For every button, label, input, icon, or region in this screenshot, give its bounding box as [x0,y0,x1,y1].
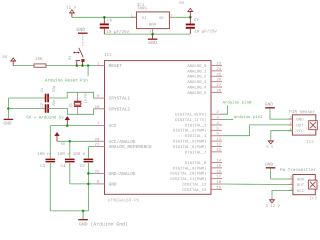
IC3 pin 3 stub (GND) [288,178,293,180]
resistor R1 10K [34,64,46,67]
IC2 pin 20 stub (VCC/ANALOG) [95,140,105,142]
junction VCC wire / 5V supply [66,124,69,127]
wire C4 bottom column [69,163,71,184]
wire gnd to PIR sensor GND pin [270,109,292,120]
IC2 pin 22 stub (GND/ANALOG) [95,172,105,174]
wire AREF net to IC2 pin 21 [88,146,95,148]
svg-text:1: 1 [290,127,292,132]
IC2 pin 10 stub (CRYSTAL2) [95,108,105,110]
capacitor C2 [44,108,47,110]
wire PIR VCC to 5V supply [271,131,293,141]
svg-text:C4: C4 [61,164,67,169]
ground symbol (Arduino Gnd) [82,211,84,219]
svg-text:ATMEGA168-PU: ATMEGA168-PU [108,198,140,203]
wire gnd to C2 [8,108,44,110]
wire stub (Arduino Reset Pin label) [87,66,89,77]
wire 12V net to IC1 VI [72,16,137,18]
svg-text:5-12 V: 5-12 V [266,204,281,209]
svg-text:1: 1 [131,13,133,18]
svg-text:OUT: OUT [296,123,304,128]
svg-text:Q1: Q1 [68,103,73,107]
wire XTAL2 net: C2 to crystal rail to IC2 pin 10 [50,109,95,115]
svg-text:12: 12 [216,142,221,147]
svg-text:ANALOG_4: ANALOG_4 [187,85,207,90]
wire IC2 DIGITAL_12 to Fm transmitter OUT [222,183,293,186]
svg-text:5 V: 5 V [266,145,274,150]
crystal Q1 16 MHz [77,92,79,101]
junction GND rail / IC1 GND [151,33,154,36]
junction C5 column / pin22 wire [87,172,90,175]
IC1 pin 1 stub [131,16,136,18]
IC2 pin 12 stub (DIGITAL_6(PWM)) [211,145,222,147]
svg-text:C2: C2 [40,102,45,107]
IC1 pin 2 stub (GND) [152,29,154,34]
svg-text:16 MHz: 16 MHz [84,92,88,104]
IC2 pin 3 stub (DIGITAL_1(TX)) [211,119,222,121]
wire reset net to IC2 RESET [46,65,95,67]
junction VO net / C7 / 5V [189,16,192,19]
svg-text:GND: GND [3,120,12,126]
svg-text:28: 28 [216,88,221,93]
svg-text:ANALOG_3: ANALOG_3 [187,80,207,85]
svg-text:DIGITAL_3(PWM): DIGITAL_3(PWM) [173,129,207,134]
svg-text:VCC: VCC [109,123,117,129]
IC2 pin 5 stub (DIGITAL_3(PWM)) [211,129,222,131]
wire gnd column (crystal) [7,98,9,119]
junction reset net / S1 pin 2 [81,64,84,67]
IC2 pin 24 stub (ANALOG_1) [211,70,222,72]
svg-text:21: 21 [95,143,100,148]
wire VCC net to IC2 pin 7 [50,125,95,127]
capacitor C6 [103,17,105,23]
svg-text:DIGITAL_0(RX): DIGITAL_0(RX) [175,113,206,118]
svg-text:19: 19 [216,185,221,190]
IC2 pin 23 stub (ANALOG_0) [211,65,222,67]
wire AVCC net to IC2 pin 20 [57,140,95,142]
svg-text:10K: 10K [35,57,43,62]
IC2 pin 19 stub (DIGITAL_13) [211,188,222,190]
IC2 pin 11 stub (DIGITAL_5(PWM)) [211,140,222,142]
wire IC1 VO to 5V/C7 [174,16,190,18]
capacitor C7 [189,17,191,23]
svg-text:DIGITAL_10(PWM): DIGITAL_10(PWM) [170,172,206,177]
svg-text:18: 18 [216,180,221,185]
svg-text:27: 27 [216,83,221,88]
svg-text:GND (Arduino Gnd): GND (Arduino Gnd) [79,221,128,227]
svg-text:23: 23 [216,62,221,67]
wire Arduino pin0 stub [222,105,228,114]
svg-text:DIGITAL_8: DIGITAL_8 [185,161,207,166]
wire C4 top column [69,141,71,158]
svg-text:5V: 5V [61,142,66,147]
svg-text:DIGITAL_11(PWM): DIGITAL_11(PWM) [170,177,206,182]
supply 5V symbol (PIR, arrow down) [268,141,273,144]
svg-text:3: 3 [290,175,292,180]
svg-text:GND: GND [149,23,157,28]
svg-text:GND: GND [109,181,117,187]
svg-text:IC4: IC4 [306,140,314,145]
svg-text:IC3: IC3 [310,197,318,202]
svg-text:C5: C5 [80,164,86,169]
wire C3 top column [49,126,51,159]
junction reset net / S1 pin 1 [76,64,79,67]
IC2 pin 7 stub (VCC) [95,125,105,127]
IC1 pin 3 stub [169,16,174,18]
IC2 pin 21 stub (ANALOG_REFERENCE) [95,146,105,148]
ground symbol (regulator) [152,34,154,39]
IC4 pin 2 stub (OUT) [288,124,293,126]
svg-text:GND: GND [265,163,273,168]
svg-text:22: 22 [95,169,100,174]
wire GND/ANALOG to IC2 pin 22 [88,172,95,174]
svg-text:22p: 22p [52,99,57,107]
svg-text:CRYSTAL1: CRYSTAL1 [109,96,131,102]
IC3 pin 2 stub (OUT) [288,184,293,186]
IC2 pin 27 stub (ANALOG_4) [211,86,222,88]
svg-text:C6: C6 [107,19,113,24]
svg-text:2: 2 [290,121,292,126]
voltage regulator IC1 7805 [137,12,170,29]
IC2 pin 25 stub (ANALOG_2) [211,75,222,77]
IC2 pin 18 stub (DIGITAL_12) [211,183,222,185]
IC2 pin 2 stub (DIGITAL_0(RX)) [211,113,222,115]
svg-text:GND: GND [148,40,157,46]
svg-text:ANALOG_2: ANALOG_2 [187,75,207,80]
svg-text:DIGITAL_4: DIGITAL_4 [185,134,207,139]
svg-text:5V: 5V [179,1,185,6]
junction reset net / label stub [87,64,90,67]
switch S1 [82,34,84,47]
svg-text:DIGITAL_9(PWM): DIGITAL_9(PWM) [173,166,207,171]
IC4 pin 1 stub (VCC) [288,130,293,132]
wire gnd to C1 [8,97,44,99]
wire C5 top column [87,147,89,159]
IC2 pin 14 stub (DIGITAL_8) [211,162,222,164]
svg-text:11: 11 [216,137,221,142]
wire XTAL1 net: C1 to crystal rail to IC2 pin 9 [50,92,95,98]
IC2 pin 17 stub (DIGITAL_11(PWM)) [211,178,222,180]
IC2 pin 1 stub (RESET) [95,65,105,67]
junction C2 gnd / gnd column [7,107,10,110]
supply 5-12V symbol (arrow down) [270,200,275,203]
svg-text:26: 26 [216,78,221,83]
svg-text:S1: S1 [68,55,73,60]
junction C5 column / pin8 wire [87,183,90,186]
IC2 pin 6 stub (DIGITAL_4) [211,135,222,137]
svg-text:16: 16 [216,169,221,174]
svg-text:DIGITAL_1(TX): DIGITAL_1(TX) [175,118,206,123]
supply +5V symbol (AVCC) [55,133,59,136]
svg-text:100 n: 100 n [57,152,70,157]
svg-text:VCC: VCC [296,129,304,134]
svg-text:RESET: RESET [109,63,123,69]
svg-text:Arduino pin0: Arduino pin0 [223,101,252,106]
IC2 pin 4 stub (DIGITAL_2) [211,124,222,126]
connector symbol (X) IC3 [308,180,317,189]
IC2 pin 13 stub (DIGITAL_7) [211,151,222,153]
IC2 pin 26 stub (ANALOG_3) [211,81,222,83]
svg-text:OUT: OUT [297,183,305,188]
svg-text:24: 24 [216,67,221,72]
junction AVCC wire / C4 [69,140,72,143]
svg-text:1: 1 [290,187,292,192]
IC3 pin 1 stub (VCC) [288,189,293,191]
svg-text:3: 3 [170,13,172,18]
wire IC2 DIGITAL_4 to PIR sensor OUT [222,125,292,136]
svg-text:DIGITAL_5(PWM): DIGITAL_5(PWM) [173,140,207,145]
svg-text:14: 14 [216,159,221,164]
junction GND rail / gnd symbol [82,210,85,213]
IC2 pin 28 stub (ANALOG_5) [211,91,222,93]
svg-text:VO: VO [159,16,164,21]
svg-text:C3: C3 [40,164,46,169]
svg-text:17: 17 [216,175,221,180]
svg-text:VCC/ANALOG: VCC/ANALOG [109,139,136,145]
svg-text:VI: VI [142,16,147,21]
junction 12V net / C6 [103,16,106,19]
svg-text:Arduino pin1: Arduino pin1 [234,115,263,120]
svg-text:CRYSTAL2: CRYSTAL2 [109,106,131,112]
svg-text:ANALOG_REFERENCE: ANALOG_REFERENCE [109,144,153,150]
svg-text:ANALOG_1: ANALOG_1 [187,69,207,74]
svg-text:3: 3 [290,115,292,120]
wire bottom GND rail [50,210,88,212]
svg-text:DIGITAL_2: DIGITAL_2 [185,123,207,128]
svg-text:GND: GND [76,27,85,33]
svg-text:100 n: 100 n [73,152,86,157]
IC2 pin 16 stub (DIGITAL_10(PWM)) [211,172,222,174]
svg-text:DIGITAL_7: DIGITAL_7 [185,150,207,155]
svg-text:ANALOG_5: ANALOG_5 [187,91,207,96]
wire Arduino pin1 stub [222,119,233,121]
IC4 pin 3 stub (GND) [288,118,293,120]
svg-text:20: 20 [95,137,100,142]
svg-text:5V: 5V [2,55,8,60]
IC2 pin 15 stub (DIGITAL_9(PWM)) [211,167,222,169]
svg-text:GND: GND [296,118,304,123]
svg-text:ANALOG_0: ANALOG_0 [187,64,207,69]
svg-text:25: 25 [216,72,221,77]
wire C5 bottom column [87,163,89,211]
IC2 pin 8 stub (GND) [95,183,105,185]
svg-text:GND: GND [265,103,273,108]
svg-text:22p: 22p [52,85,57,93]
capacitor C1 [44,97,47,99]
svg-text:Fm Transmitter: Fm Transmitter [280,167,317,173]
svg-text:13: 13 [216,148,221,153]
supply +5V symbol (VCC) [65,117,69,120]
svg-text:DIGITAL_6(PWM): DIGITAL_6(PWM) [173,145,207,150]
svg-text:2: 2 [290,181,292,186]
connector symbol (X) IC4 [309,121,318,130]
svg-text:VCC: VCC [297,189,305,194]
svg-text:IC2: IC2 [104,53,112,58]
wire transmitter VCC to 5-12V supply [272,190,293,199]
svg-text:C1: C1 [40,87,45,92]
microcontroller IC2 ATMEGA168 [105,61,212,195]
wire C3 bottom column [49,163,51,211]
svg-text:PIR Sensor: PIR Sensor [289,110,315,115]
svg-text:GND: GND [297,178,305,183]
IC2 pin 9 stub (CRYSTAL1) [95,97,105,99]
svg-text:7805: 7805 [137,6,148,11]
wire GND to IC2 pin 8 [70,183,95,185]
svg-text:GND/ANALOG: GND/ANALOG [109,171,136,177]
wire GND rail (top) [104,33,190,35]
svg-text:DIGITAL_12: DIGITAL_12 [182,182,207,187]
svg-text:100 n: 100 n [37,152,50,157]
wire gnd to transmitter GND pin [271,169,293,180]
wire 5V to resistor R1 [13,65,34,67]
svg-text:C7: C7 [194,18,200,23]
svg-text:DIGITAL_13: DIGITAL_13 [182,188,207,193]
svg-text:15: 15 [216,164,221,169]
svg-text:10: 10 [95,105,100,110]
